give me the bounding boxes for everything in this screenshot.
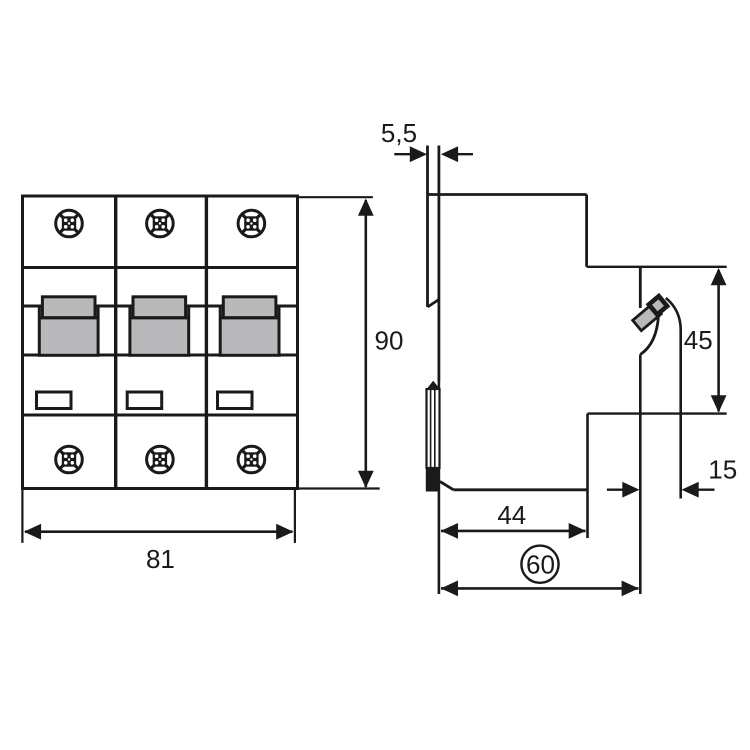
svg-text:45: 45 bbox=[684, 325, 713, 355]
svg-text:15: 15 bbox=[708, 454, 737, 484]
svg-text:44: 44 bbox=[497, 500, 526, 530]
svg-text:81: 81 bbox=[146, 544, 175, 574]
svg-text:90: 90 bbox=[375, 326, 404, 356]
svg-text:60: 60 bbox=[526, 549, 555, 579]
svg-text:5,5: 5,5 bbox=[381, 118, 417, 148]
